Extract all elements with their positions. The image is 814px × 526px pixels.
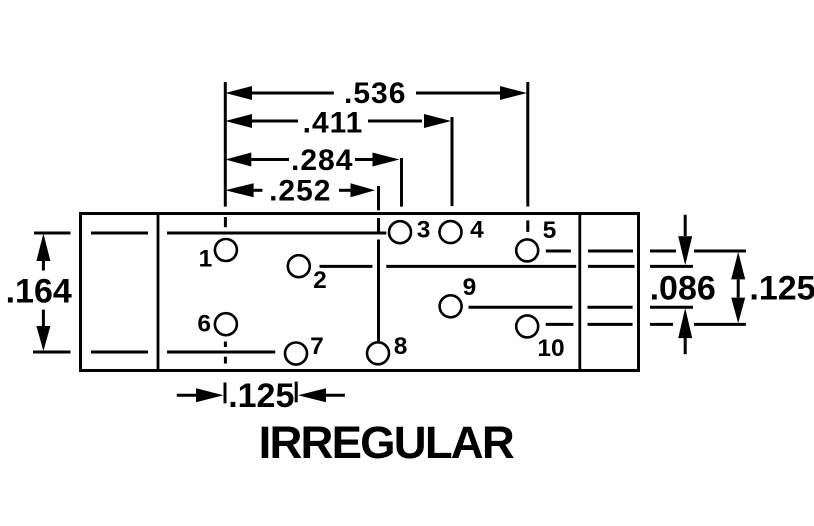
dim .536 line: [252, 92, 334, 95]
arrowhead .411 right: [424, 114, 451, 128]
dim .252 line: [254, 189, 263, 192]
svg-text:6: 6: [197, 311, 211, 338]
svg-text:9: 9: [463, 274, 477, 301]
svg-text:.125: .125: [228, 377, 294, 415]
arrowhead .284 right: [373, 153, 400, 167]
terminal circle 1: [215, 239, 237, 261]
arrowhead .411 left: [225, 114, 252, 128]
arrowhead .086 down: [678, 236, 692, 265]
terminal circle 6: [215, 313, 237, 335]
svg-text:10: 10: [537, 335, 564, 362]
svg-text:8: 8: [394, 333, 408, 360]
dim .086 stems: [684, 215, 687, 237]
dim .411 line: [252, 120, 298, 123]
arrowhead .164 up: [36, 234, 50, 262]
svg-text:.536: .536: [344, 77, 406, 110]
row D y=324.4 contact dashes circle 10: [546, 323, 574, 326]
arrowhead .536 right: [500, 86, 527, 100]
arrowhead .164 down: [36, 326, 50, 351]
terminal circle 10: [516, 315, 538, 337]
svg-text:.164: .164: [6, 272, 72, 310]
svg-text:.086: .086: [650, 269, 716, 307]
svg-text:4: 4: [470, 217, 484, 244]
dim .125 right stem: [737, 279, 740, 297]
terminal circle 9: [440, 295, 462, 317]
right divider: [578, 214, 581, 371]
terminal circle 2: [288, 255, 310, 277]
extension line x=452 for .411: [451, 117, 454, 206]
left divider: [157, 214, 160, 371]
extension line common left x=225.3: [224, 82, 227, 207]
arrowhead .284 left: [225, 153, 251, 167]
row B y=266.4 contact line circle 2: [320, 265, 373, 268]
arrowhead .252 left: [225, 183, 253, 197]
svg-text:.411: .411: [303, 106, 364, 139]
terminal body outline: [81, 214, 639, 371]
row top y=233 contact line: [34, 232, 71, 235]
arrowhead .125 right down: [731, 298, 745, 324]
arrowhead .125 bottom right: [298, 388, 326, 402]
row C y=307.3 contact line circle 9: [469, 306, 573, 309]
terminal circle 4: [440, 221, 462, 243]
arrowhead .125 bottom left: [196, 388, 224, 402]
svg-text:.125: .125: [749, 270, 814, 308]
extension line x=378.5 for .252 to circle 8: [377, 186, 380, 210]
svg-text:.284: .284: [291, 144, 353, 177]
svg-text:IRREGULAR: IRREGULAR: [259, 417, 514, 468]
svg-text:3: 3: [417, 217, 431, 244]
extension line x=401.5 for .284: [400, 158, 403, 207]
dim .125 bottom line: [177, 394, 197, 397]
arrowhead .086 up: [678, 308, 692, 338]
terminal circle 8: [367, 342, 389, 364]
arrowhead .252 right: [351, 183, 376, 197]
svg-text:.252: .252: [269, 175, 331, 208]
svg-text:2: 2: [313, 267, 327, 294]
arrowhead .125 right up: [731, 252, 745, 280]
extension tick circle 7: [295, 382, 298, 403]
dim .284 line: [251, 158, 289, 161]
row bottom y=352 contact line: [33, 351, 71, 354]
dim .164 stems: [42, 261, 45, 271]
arrowhead .536 left: [225, 86, 252, 100]
svg-text:1: 1: [199, 246, 213, 273]
row A y=251 contact dashes: [546, 250, 571, 253]
terminal circle 3: [389, 221, 411, 243]
svg-text:5: 5: [543, 217, 557, 244]
extension line x=527.8 for .536: [526, 82, 529, 207]
terminal circle 5: [516, 239, 538, 261]
svg-text:7: 7: [310, 333, 324, 360]
terminal circle 7: [285, 343, 307, 365]
